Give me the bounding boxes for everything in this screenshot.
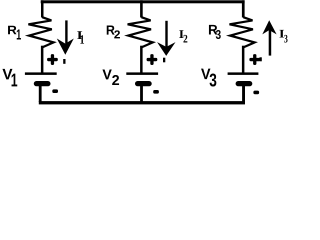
wire branch 2 top stub [140,0,143,17]
current arrow I2 [157,21,175,63]
wire V2 to bottom rail [140,86,143,102]
label V2 [102,69,119,85]
label I3 [279,30,287,43]
battery V1 plus terminal [47,54,58,65]
resistor R2 [128,17,153,47]
label R3 [209,25,221,39]
wire bottom rail node B [39,101,245,104]
label V3 [201,69,216,87]
wire branch 3 top stub [242,0,245,17]
battery V3 [228,72,259,86]
wire R1 bottom to battery V1 [41,46,44,73]
current arrow I3 [259,20,276,61]
wire branch 1 top stub [41,0,44,17]
battery V1 minus terminal [52,89,58,93]
resistor R3 [230,17,255,47]
battery V2 [126,72,158,86]
label I1 [77,31,84,43]
wire R3 bottom to battery V3 [242,46,245,73]
resistor R1 [28,17,53,47]
battery V2 plus terminal [147,54,158,65]
wire V1 to bottom rail [39,86,42,102]
wire V3 to bottom rail [242,86,245,102]
wire R2 bottom to battery V2 [140,46,143,73]
label R2 [107,25,120,38]
label V1 [2,69,17,87]
label R1 [8,26,21,40]
battery V3 plus terminal [249,54,260,65]
wire top rail node A [41,0,245,3]
battery V2 minus terminal [153,90,159,94]
current arrow I1 [57,20,74,63]
battery V1 [25,72,57,86]
label I2 [179,30,187,42]
battery V3 minus terminal [253,91,259,95]
